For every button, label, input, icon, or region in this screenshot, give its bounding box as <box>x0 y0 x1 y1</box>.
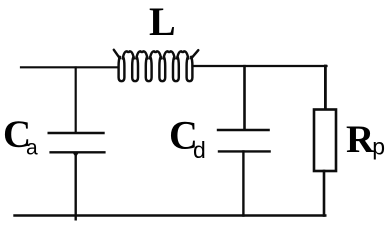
svg-text:d: d <box>193 137 206 163</box>
svg-text:R: R <box>346 118 375 161</box>
svg-text:L: L <box>149 0 176 44</box>
svg-text:a: a <box>26 136 38 159</box>
svg-text:p: p <box>372 134 385 160</box>
